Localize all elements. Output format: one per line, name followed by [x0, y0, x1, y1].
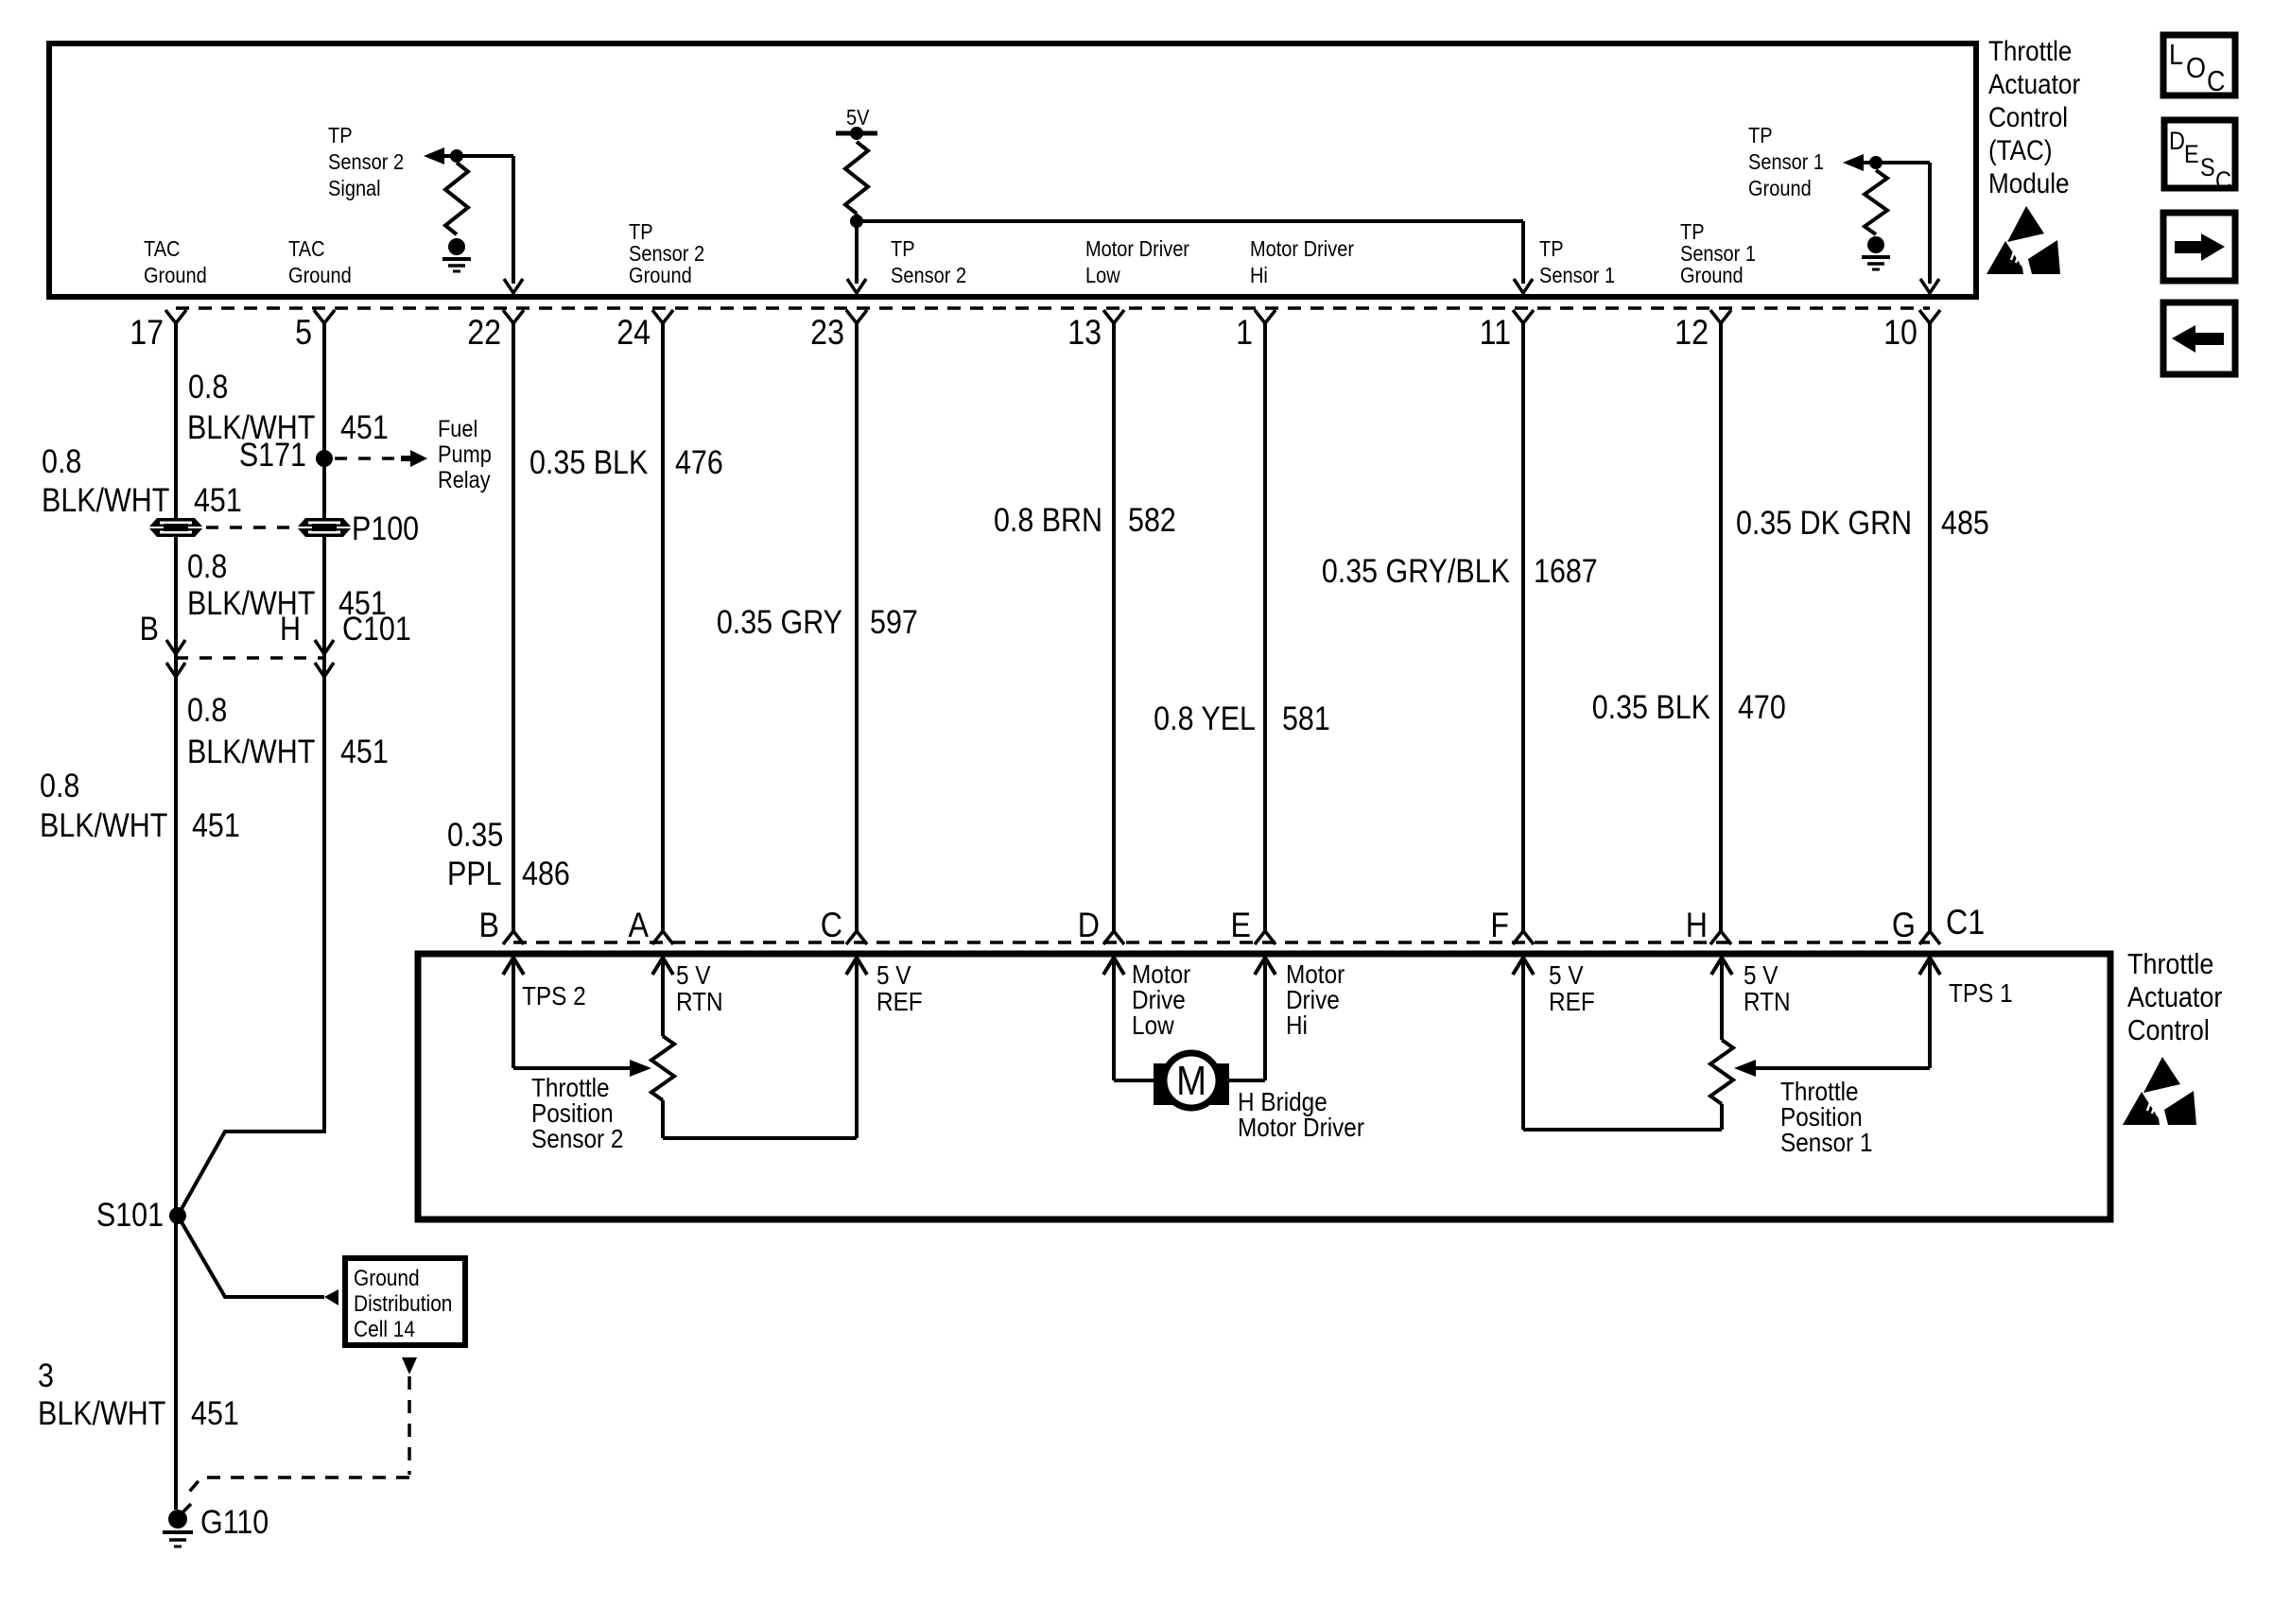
dashed wire: Ground Distribution to G110 — [185, 1376, 409, 1496]
svg-text:REF: REF — [876, 986, 923, 1016]
terminal V pin 12 — [1710, 310, 1731, 323]
left arrow reference box — [2163, 302, 2235, 374]
arrow into throttle body terminal A — [652, 958, 673, 975]
wire: terminal F (5V REF) down — [1521, 958, 1525, 1130]
potentiometer RT1 (Throttle Position Sensor 1) — [1710, 1040, 1733, 1104]
connector C101 dashed line — [176, 656, 324, 660]
svg-text:G110: G110 — [200, 1503, 269, 1540]
svg-text:C: C — [821, 907, 842, 945]
svg-text:12: 12 — [1674, 314, 1709, 353]
wire: terminal G (TPS 1 signal) down — [1928, 958, 1932, 1068]
svg-text:0.35 BLK: 0.35 BLK — [529, 443, 648, 480]
terminal V pin 17 — [165, 310, 186, 323]
wire: harness drop at x=1611 — [1521, 323, 1525, 931]
wire: harness drop at x=701 — [661, 323, 665, 931]
wire: terminal C (5V REF) down — [855, 958, 859, 1138]
svg-text:P100: P100 — [352, 510, 419, 546]
svg-text:Control: Control — [1988, 101, 2068, 132]
wire: below TPS1 resistor — [1720, 1104, 1724, 1130]
svg-text:Distribution: Distribution — [354, 1291, 452, 1317]
TPS 1 wiper arrow — [1734, 1060, 1756, 1077]
svg-text:E: E — [2184, 141, 2199, 169]
svg-text:Motor Driver: Motor Driver — [1238, 1112, 1364, 1142]
wire: terminal B (TPS 2 signal) down — [512, 958, 515, 1068]
svg-text:451: 451 — [338, 584, 387, 621]
svg-text:0.8: 0.8 — [40, 767, 79, 803]
svg-text:13: 13 — [1067, 314, 1102, 353]
svg-text:BLK/WHT: BLK/WHT — [38, 1394, 165, 1431]
svg-text:TP: TP — [891, 236, 915, 262]
arrow into throttle body terminal H — [1711, 958, 1732, 975]
svg-text:BLK/WHT: BLK/WHT — [187, 584, 315, 621]
svg-text:Sensor 2: Sensor 2 — [328, 149, 404, 175]
resistor R3 (TP Sensor 1 Ground) — [1865, 170, 1887, 234]
svg-text:Hi: Hi — [1250, 263, 1268, 288]
svg-text:BLK/WHT: BLK/WHT — [187, 733, 315, 769]
arrow into throttle body terminal E — [1255, 958, 1275, 975]
svg-text:24: 24 — [616, 314, 651, 353]
ground G110 — [163, 1504, 193, 1546]
wire: pin 5 BLK/WHT 451 down to S101 — [178, 323, 324, 1216]
terminal V at C1 x=543 — [503, 931, 524, 944]
svg-text:C1: C1 — [1946, 904, 1985, 942]
connector P100 (wire 5) — [298, 518, 351, 537]
arrow to Fuel Pump Relay — [401, 456, 410, 461]
Throttle Actuator Control box (throttle body) — [418, 954, 2110, 1219]
svg-text:0.8: 0.8 — [42, 442, 81, 479]
svg-text:Actuator: Actuator — [2127, 981, 2223, 1013]
svg-text:S101: S101 — [96, 1196, 164, 1233]
svg-text:B: B — [479, 907, 499, 945]
svg-text:O: O — [2186, 52, 2206, 84]
svg-text:TPS 2: TPS 2 — [522, 980, 586, 1011]
terminal V pin 5 — [314, 310, 335, 323]
wire: harness drop at x=906 — [855, 323, 859, 931]
signal ground (TP Sensor 1) — [1862, 236, 1890, 269]
wire: down to pin 22 — [512, 156, 515, 284]
wire: terminal A (5V RTN) down — [661, 958, 665, 1036]
svg-text:0.8: 0.8 — [188, 368, 228, 405]
svg-text:0.35 DK GRN: 0.35 DK GRN — [1736, 504, 1912, 541]
wire: terminal D (motor drive low) down — [1112, 958, 1116, 1080]
TAC module box U1 — [49, 43, 1976, 297]
svg-text:Ground: Ground — [144, 263, 207, 288]
connector C2 dashed line — [176, 306, 1930, 310]
wire: to motor right terminal — [1227, 1079, 1265, 1082]
arrow into throttle body terminal F — [1513, 958, 1534, 975]
svg-text:Low: Low — [1085, 263, 1120, 288]
splice S101 — [169, 1207, 186, 1224]
svg-text:Ground: Ground — [354, 1266, 420, 1291]
junction on TP Sensor 2 Signal wire — [450, 149, 463, 163]
wire: TPS 2 wiper — [513, 1066, 630, 1070]
junction at 5V bar — [850, 127, 863, 140]
arrow into pin 11 — [1514, 279, 1533, 293]
wire: harness drop at x=543 — [512, 323, 515, 931]
arrow into pin 22 — [504, 279, 523, 293]
arrow into throttle body terminal C — [846, 958, 867, 975]
DESC reference box — [2164, 120, 2235, 188]
wire: TPS1 bottom leg — [1523, 1128, 1722, 1132]
svg-text:Ground: Ground — [1748, 176, 1812, 201]
terminal V pin 11 — [1513, 310, 1534, 323]
svg-text:Sensor 2: Sensor 2 — [891, 263, 966, 288]
TPS 2 wiper arrow — [630, 1060, 651, 1077]
terminal V pin 24 — [652, 310, 673, 323]
svg-text:(TAC): (TAC) — [1988, 134, 2053, 165]
svg-text:H: H — [1686, 907, 1708, 945]
svg-text:Motor Driver: Motor Driver — [1250, 236, 1354, 262]
svg-text:451: 451 — [194, 481, 242, 518]
svg-text:TP: TP — [1539, 236, 1564, 262]
svg-text:1687: 1687 — [1534, 552, 1598, 589]
terminal V at C1 x=1178 — [1103, 931, 1124, 944]
svg-text:23: 23 — [810, 314, 844, 353]
wire: harness drop at x=1338 — [1263, 323, 1267, 931]
ESD warning symbol (TAC module) — [1987, 206, 2060, 274]
svg-text:5V: 5V — [846, 105, 870, 130]
svg-text:0.8: 0.8 — [187, 691, 227, 728]
svg-text:Throttle: Throttle — [2127, 948, 2213, 980]
signal ground (TP Sensor 2) — [442, 238, 471, 271]
svg-text:1: 1 — [1236, 314, 1253, 353]
wire: pin 17 BLK/WHT 451 down to G110 — [174, 323, 178, 1510]
wire: harness drop at x=1820 — [1719, 323, 1723, 931]
arrow into throttle body terminal G — [1919, 958, 1940, 975]
svg-text:Control: Control — [2127, 1014, 2210, 1046]
svg-text:581: 581 — [1282, 700, 1330, 736]
wire: 5V junction down to pin 23 — [855, 214, 859, 284]
5V supply bar — [836, 131, 877, 136]
svg-text:Ground: Ground — [288, 263, 352, 288]
svg-text:REF: REF — [1549, 986, 1595, 1016]
svg-text:RTN: RTN — [676, 986, 723, 1016]
svg-text:Actuator: Actuator — [1988, 68, 2080, 99]
Ground Distribution Cell 14 box — [345, 1258, 465, 1345]
svg-text:485: 485 — [1941, 504, 1989, 541]
terminal V at C1 x=1611 — [1513, 931, 1534, 944]
wire: harness drop at x=1178 — [1112, 323, 1116, 931]
connector C1 dashed line — [513, 941, 1930, 944]
svg-text:D: D — [2169, 128, 2185, 156]
svg-text:D: D — [1078, 907, 1100, 945]
echo arrow below C101 (x=343) — [315, 663, 334, 677]
terminal V at C1 x=2041 — [1919, 931, 1940, 944]
svg-text:Relay: Relay — [438, 467, 491, 493]
wire: S101 to Ground Distribution — [178, 1216, 324, 1297]
svg-text:BLK/WHT: BLK/WHT — [40, 806, 167, 843]
svg-text:F: F — [1490, 907, 1509, 945]
dashed wire to Fuel Pump Relay — [335, 457, 404, 460]
svg-text:0.35 BLK: 0.35 BLK — [1592, 688, 1710, 725]
terminal V pin 10 — [1919, 310, 1940, 323]
svg-text:TPS 1: TPS 1 — [1949, 977, 2013, 1008]
junction below R2 — [850, 215, 863, 228]
resistor R2 (5V pull-up) — [845, 142, 868, 214]
svg-text:0.8 BRN: 0.8 BRN — [994, 501, 1102, 538]
svg-text:Low: Low — [1132, 1010, 1175, 1040]
svg-text:Sensor 1: Sensor 1 — [1748, 149, 1824, 175]
svg-text:BLK/WHT: BLK/WHT — [42, 481, 169, 518]
svg-text:Throttle: Throttle — [1988, 35, 2072, 66]
arrow into pin 23 — [847, 279, 866, 293]
wire: TP Sensor 2 Signal node to pin 22 drop — [443, 154, 513, 158]
svg-text:G: G — [1892, 907, 1916, 945]
svg-text:Sensor 1: Sensor 1 — [1780, 1127, 1872, 1157]
svg-text:BLK/WHT: BLK/WHT — [187, 408, 315, 445]
terminal V pin 22 — [503, 310, 524, 323]
svg-text:0.8: 0.8 — [187, 547, 227, 584]
svg-text:Sensor 1: Sensor 1 — [1539, 263, 1615, 288]
svg-text:Pump: Pump — [438, 441, 492, 468]
svg-text:Motor Driver: Motor Driver — [1085, 236, 1189, 262]
svg-text:L: L — [2169, 39, 2183, 71]
svg-text:TAC: TAC — [144, 236, 181, 262]
svg-text:A: A — [629, 907, 650, 945]
svg-text:Fuel: Fuel — [438, 416, 477, 442]
svg-text:RTN: RTN — [1744, 986, 1791, 1016]
svg-text:B: B — [140, 610, 159, 647]
svg-text:451: 451 — [192, 806, 240, 843]
svg-text:PPL: PPL — [447, 855, 502, 891]
terminal V at C1 x=701 — [652, 931, 673, 944]
svg-text:TAC: TAC — [288, 236, 325, 262]
wire: to motor left terminal — [1114, 1079, 1155, 1082]
svg-text:17: 17 — [130, 314, 164, 353]
arrow into pin 10 — [1920, 279, 1939, 293]
svg-text:Ground: Ground — [629, 263, 692, 288]
arrow at C101 (x=186) — [166, 640, 185, 654]
svg-text:451: 451 — [340, 733, 389, 769]
svg-text:0.35 GRY: 0.35 GRY — [717, 603, 842, 640]
right arrow reference box — [2163, 213, 2235, 281]
svg-text:486: 486 — [522, 855, 570, 891]
arrow at C101 (x=343) — [315, 640, 334, 654]
svg-text:E: E — [1231, 907, 1251, 945]
svg-text:3: 3 — [38, 1356, 54, 1393]
terminal V at C1 x=906 — [846, 931, 867, 944]
wire: down to pin 11 — [1521, 221, 1525, 284]
connector P100 (wire 17) — [149, 518, 202, 537]
TP Sensor 1 Ground arrow (internal, points left) — [1843, 154, 1864, 171]
arrow into throttle body terminal B — [503, 958, 524, 975]
svg-text:Cell 14: Cell 14 — [354, 1317, 415, 1342]
terminal V at C1 x=1338 — [1255, 931, 1275, 944]
wire: down to pin 10 — [1928, 163, 1932, 284]
svg-text:476: 476 — [675, 443, 723, 480]
wire: TPS2 bottom to terminal C leg — [663, 1136, 857, 1140]
terminal V pin 13 — [1103, 310, 1124, 323]
echo arrow below C101 (x=186) — [166, 663, 185, 677]
svg-text:Ground: Ground — [1680, 263, 1744, 288]
svg-text:Sensor 2: Sensor 2 — [531, 1123, 623, 1153]
terminal V at C1 x=1820 — [1710, 931, 1731, 944]
svg-text:0.35 GRY/BLK: 0.35 GRY/BLK — [1322, 552, 1510, 589]
svg-text:M: M — [1176, 1058, 1206, 1104]
splice S171 — [316, 450, 333, 467]
svg-text:Hi: Hi — [1286, 1010, 1308, 1040]
arrow head below Ground Distribution box — [402, 1357, 417, 1374]
svg-text:470: 470 — [1738, 688, 1786, 725]
svg-text:C: C — [2215, 167, 2231, 196]
wire: TPS 1 wiper — [1756, 1066, 1930, 1070]
TP Sensor 2 Signal arrow (internal, points left) — [424, 147, 444, 164]
dashed link P100 — [206, 526, 295, 529]
motor M1 (H bridge motor) — [1154, 1063, 1229, 1105]
svg-text:451: 451 — [191, 1394, 239, 1431]
wire: below TPS2 resistor — [661, 1100, 665, 1138]
wire: harness drop at x=2041 — [1928, 323, 1932, 931]
wire: 5V junction to pin 11 branch — [857, 219, 1523, 223]
arrow from Ground Distribution (points left) — [324, 1289, 338, 1305]
svg-text:11: 11 — [1480, 314, 1511, 353]
resistor R1 (TP Sensor 2 Signal) — [445, 163, 468, 234]
potentiometer RT2 (Throttle Position Sensor 2) — [651, 1036, 674, 1100]
junction on TP Sensor 1 Ground wire — [1869, 156, 1883, 169]
svg-text:10: 10 — [1883, 314, 1917, 353]
wire: terminal E (motor drive hi) down — [1263, 958, 1267, 1080]
svg-text:C: C — [2207, 65, 2225, 97]
svg-text:22: 22 — [467, 314, 501, 353]
svg-text:Signal: Signal — [328, 176, 381, 201]
wire: TP Sensor 1 Ground node to pin 10 drop — [1863, 161, 1930, 164]
svg-text:451: 451 — [340, 408, 389, 445]
svg-text:TP: TP — [1748, 123, 1773, 148]
terminal V pin 1 — [1255, 310, 1275, 323]
svg-text:TP: TP — [328, 123, 353, 148]
wire: terminal H (5V RTN) down — [1720, 958, 1724, 1040]
svg-text:0.8 YEL: 0.8 YEL — [1154, 700, 1256, 736]
terminal V pin 23 — [846, 310, 867, 323]
ESD warning symbol (throttle body) — [2123, 1057, 2196, 1125]
svg-text:597: 597 — [870, 603, 918, 640]
svg-text:S: S — [2200, 154, 2215, 182]
svg-text:Module: Module — [1988, 167, 2070, 199]
arrow into throttle body terminal D — [1103, 958, 1124, 975]
LOC reference box — [2163, 35, 2235, 95]
svg-text:5: 5 — [295, 314, 312, 353]
svg-text:582: 582 — [1128, 501, 1176, 538]
svg-text:0.35: 0.35 — [447, 816, 503, 853]
